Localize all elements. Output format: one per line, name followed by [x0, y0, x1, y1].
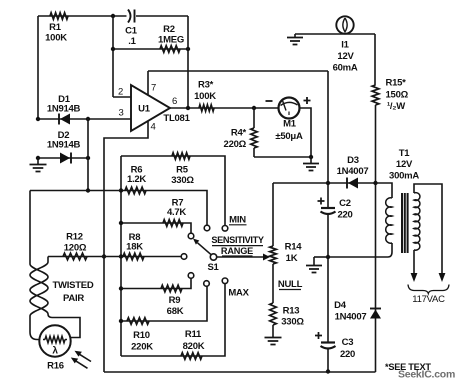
label R5	[171, 165, 194, 187]
svg-text:3: 3	[118, 108, 123, 119]
svg-text:6: 6	[172, 96, 177, 107]
svg-text:R13: R13	[283, 306, 300, 317]
label 117VAC	[412, 294, 445, 305]
wire twisted to R16 right	[48, 314, 80, 338]
svg-text:C2: C2	[339, 198, 351, 209]
junction M1 minus node	[252, 106, 256, 110]
wire x88 rail	[87, 119, 89, 190]
junction D1 left	[36, 117, 40, 121]
wire output y108	[170, 107, 279, 109]
wire pin2	[113, 96, 131, 98]
resistor R2	[160, 46, 180, 53]
svg-text:¹/₂W: ¹/₂W	[387, 101, 405, 112]
arrow 117VAC left	[411, 273, 418, 282]
svg-text:330Ω: 330Ω	[281, 317, 304, 328]
label TWISTED PAIR	[53, 280, 94, 304]
wire pin7	[147, 71, 149, 95]
svg-text:S1: S1	[207, 262, 219, 273]
contact S1 from R8	[181, 254, 187, 260]
op-amp U1	[131, 85, 170, 131]
switch S1 pivot	[210, 254, 216, 260]
junction pin4 rail R12	[102, 254, 106, 258]
svg-text:820K: 820K	[183, 341, 205, 352]
label D2	[47, 130, 81, 151]
junction R6	[119, 188, 123, 192]
label R14	[285, 242, 303, 265]
svg-text:1N914B: 1N914B	[47, 104, 81, 115]
svg-text:330Ω: 330Ω	[171, 175, 194, 186]
photocell R16	[39, 325, 70, 356]
wire R9 row	[121, 279, 191, 289]
svg-text:R16: R16	[47, 361, 64, 372]
ground below D2	[30, 158, 47, 172]
wiper arrow into R14	[217, 254, 270, 261]
label R12	[64, 232, 87, 254]
svg-text:R9: R9	[169, 295, 181, 306]
brace 117VAC	[408, 285, 449, 294]
label R9	[167, 295, 184, 317]
svg-text:U1: U1	[138, 104, 151, 115]
ground lamp	[287, 34, 303, 45]
label R6	[127, 165, 146, 186]
label D1	[47, 94, 81, 115]
wire bottom rail	[104, 371, 376, 373]
svg-text:TWISTED: TWISTED	[53, 280, 94, 291]
transformer primary coil	[414, 193, 420, 251]
wire pin7 to Vplus rail	[148, 70, 328, 72]
wire primary top lead	[414, 184, 442, 274]
label C2	[337, 198, 352, 221]
svg-text:SeekIC.com: SeekIC.com	[398, 369, 455, 381]
svg-text:117VAC: 117VAC	[412, 294, 445, 305]
wire secondary bottom lead	[328, 243, 392, 257]
twisted pair	[30, 262, 48, 316]
label C1	[125, 26, 138, 48]
light arrow 1	[75, 351, 92, 362]
svg-text:12V: 12V	[396, 159, 413, 170]
wire R6 row	[121, 191, 207, 225]
wire primary bottom lead	[413, 250, 415, 274]
svg-text:R11: R11	[185, 329, 202, 340]
label lambda	[52, 346, 58, 357]
svg-text:R2: R2	[163, 24, 175, 35]
svg-text:D4: D4	[334, 300, 347, 311]
svg-text:M1: M1	[283, 119, 297, 130]
svg-text:R15*: R15*	[386, 78, 407, 89]
wire secondary top lead	[376, 183, 393, 198]
label R15	[386, 78, 409, 113]
pin 4 label	[150, 122, 155, 133]
contact S1 from R9	[188, 273, 194, 279]
junction R2 right	[186, 47, 190, 51]
capacitor C2	[321, 208, 336, 214]
svg-text:R5: R5	[176, 165, 189, 176]
svg-text:RANGE: RANGE	[221, 246, 253, 256]
svg-text:R3*: R3*	[198, 80, 214, 91]
junction output	[186, 106, 190, 110]
switch S1 wiper arm	[193, 239, 211, 255]
contact S1 from R11	[222, 278, 228, 284]
svg-text:100K: 100K	[45, 33, 67, 44]
svg-text:1N4007: 1N4007	[335, 312, 367, 323]
wire twisted left drop	[29, 191, 31, 265]
svg-text:R14: R14	[285, 242, 303, 253]
resistor R1	[50, 13, 68, 20]
wire R14 to R13	[272, 264, 274, 303]
svg-text:2: 2	[118, 87, 123, 98]
svg-text:MIN: MIN	[229, 215, 246, 226]
svg-text:220: 220	[340, 349, 355, 360]
svg-text:150Ω: 150Ω	[386, 90, 409, 101]
wire R11 row	[121, 284, 225, 356]
label R16	[47, 361, 64, 372]
svg-text:R1: R1	[49, 22, 62, 33]
plus sign M1	[304, 97, 311, 104]
note SEE TEXT	[385, 362, 431, 372]
svg-text:PAIR: PAIR	[63, 293, 84, 304]
node A junction R1-C1	[111, 14, 115, 18]
wire output rail x188	[187, 16, 189, 108]
junction D3 right	[373, 181, 377, 185]
wire D3 row	[328, 182, 376, 184]
contact S1 from R6	[204, 225, 210, 231]
wire R7 row	[121, 223, 191, 233]
junction R9	[119, 286, 123, 290]
resistor R4	[251, 108, 257, 157]
svg-text:1K: 1K	[286, 253, 298, 264]
label M1	[275, 119, 303, 143]
transformer core	[402, 193, 408, 253]
label R1	[45, 22, 67, 44]
minus sign M1	[266, 100, 273, 102]
wire right rail x375 mid	[375, 105, 377, 372]
ground below R13	[265, 325, 282, 345]
watermark SeekIC.com	[398, 369, 455, 381]
label MIN	[229, 215, 247, 226]
label C3	[340, 337, 355, 360]
resistor R5	[172, 153, 190, 160]
label R11	[183, 329, 205, 352]
wire feedback x113	[112, 16, 114, 97]
svg-text:NULL: NULL	[278, 279, 303, 290]
wire ladder rail x121	[120, 156, 122, 356]
wire R2 row	[113, 48, 188, 50]
resistor R6	[125, 187, 146, 194]
label R10	[131, 330, 153, 353]
wire R4 bottom	[254, 156, 311, 158]
label MAX	[228, 288, 249, 299]
svg-text:7: 7	[151, 83, 156, 94]
svg-text:C1: C1	[125, 26, 138, 37]
diode D1	[59, 114, 70, 125]
wire R8 row	[121, 256, 181, 258]
resistor R7	[163, 220, 183, 227]
svg-text:1MEG: 1MEG	[158, 35, 184, 46]
wire ground stub	[314, 256, 328, 258]
svg-text:λ: λ	[52, 346, 58, 357]
pin 6 label	[172, 96, 177, 107]
capacitor C1	[128, 10, 135, 23]
svg-text:C3: C3	[342, 337, 354, 348]
contact S1 from R7	[188, 233, 194, 239]
svg-text:1N4007: 1N4007	[337, 166, 369, 177]
label D3	[337, 155, 369, 177]
transformer secondary coil	[386, 198, 392, 243]
wire R10 row	[121, 287, 207, 322]
junction R2 left	[111, 47, 115, 51]
svg-text:60mA: 60mA	[333, 63, 358, 74]
ground mid	[306, 257, 322, 273]
wire pin3 row y119	[38, 118, 131, 120]
resistor R10	[127, 318, 149, 325]
svg-text:SENSITIVITY: SENSITIVITY	[211, 235, 264, 245]
label U1	[138, 104, 151, 115]
label R2	[158, 24, 184, 46]
svg-text:1.2K: 1.2K	[127, 174, 146, 185]
potentiometer R14	[270, 246, 277, 264]
wire to twisted pair row	[30, 190, 121, 192]
svg-text:R12: R12	[66, 232, 83, 243]
label RANGE	[221, 246, 253, 256]
svg-text:T1: T1	[399, 148, 411, 159]
svg-text:4: 4	[150, 122, 155, 133]
junction C3 bottom	[326, 369, 330, 373]
wire D2 row y158	[38, 157, 88, 159]
contact S1 from R5	[222, 226, 228, 232]
label TL081	[163, 113, 190, 124]
svg-text:TL081: TL081	[163, 113, 190, 124]
label I1	[333, 40, 358, 74]
junction R8	[119, 254, 123, 258]
diode D4	[370, 309, 381, 319]
wire top rail y16	[38, 15, 188, 17]
svg-text:220: 220	[337, 210, 352, 221]
wire R12 left drop	[47, 257, 49, 263]
light arrow 2	[71, 358, 88, 369]
label T1	[389, 148, 419, 182]
photocell R16 element	[43, 336, 67, 342]
svg-text:R4*: R4*	[231, 128, 247, 139]
junction R7	[119, 221, 123, 225]
plus sign C3	[315, 332, 322, 339]
diode D2	[60, 153, 71, 164]
svg-text:12V: 12V	[337, 51, 354, 62]
meter M1	[279, 98, 300, 119]
lamp I1	[336, 16, 353, 33]
svg-text:MAX: MAX	[228, 288, 249, 299]
resistor R15	[372, 85, 379, 105]
arrow 117VAC right	[439, 273, 446, 282]
contact S1 from R10	[204, 281, 210, 287]
junction D2 right	[86, 156, 90, 160]
pin 7 label	[151, 83, 156, 94]
resistor R9	[161, 285, 182, 292]
svg-text:300mA: 300mA	[389, 171, 419, 182]
diode D3	[347, 178, 358, 189]
wire R12 row	[48, 256, 121, 258]
label S1	[207, 262, 219, 273]
wire pin4	[104, 121, 148, 372]
plus sign C2	[318, 198, 325, 205]
label R4	[224, 128, 247, 151]
junction mid ground node	[326, 255, 330, 259]
wire lamp row y34	[295, 33, 374, 35]
svg-text:18K: 18K	[126, 242, 143, 253]
ground below M1	[303, 157, 319, 171]
svg-text:±50μA: ±50μA	[275, 131, 303, 142]
capacitor C3	[321, 343, 336, 349]
junction D2 left	[36, 156, 40, 160]
junction R10	[119, 319, 123, 323]
resistor R3	[199, 105, 214, 111]
svg-text:R10: R10	[133, 330, 150, 341]
wire R14 branch	[273, 183, 328, 246]
wire left rail x38	[37, 16, 39, 119]
wire R5 row	[121, 156, 225, 225]
resistor R8	[123, 253, 144, 260]
label D4	[334, 300, 366, 323]
junction D3 left	[326, 181, 330, 185]
svg-text:100K: 100K	[194, 91, 216, 102]
junction D1 right	[86, 117, 90, 121]
label R13	[281, 306, 304, 328]
wire M1 right	[300, 108, 312, 157]
wire Vplus rail x328	[327, 71, 329, 372]
wire twisted to R16 left	[30, 316, 40, 340]
label NULL	[278, 279, 303, 290]
label R3	[194, 80, 216, 103]
resistor R11	[181, 353, 202, 360]
junction pin3 rail to R6 row	[86, 188, 90, 192]
svg-text:120Ω: 120Ω	[64, 243, 87, 254]
svg-text:4.7K: 4.7K	[167, 207, 186, 218]
junction M1 ground node	[309, 155, 313, 159]
pin 2 label	[118, 87, 123, 98]
resistor R13	[270, 303, 277, 325]
svg-text:68K: 68K	[167, 306, 184, 317]
svg-text:220Ω: 220Ω	[224, 139, 247, 150]
label R8	[126, 232, 143, 253]
svg-text:220K: 220K	[131, 342, 153, 353]
wire right rail x375 upper	[374, 34, 375, 85]
svg-text:.1: .1	[128, 36, 136, 47]
pin 3 label	[118, 108, 123, 119]
svg-text:I1: I1	[341, 40, 349, 51]
label SENSITIVITY	[211, 235, 264, 246]
svg-text:1N914B: 1N914B	[47, 140, 81, 151]
label R7	[167, 198, 186, 219]
svg-text:D3: D3	[347, 155, 359, 166]
resistor R12	[63, 253, 87, 260]
